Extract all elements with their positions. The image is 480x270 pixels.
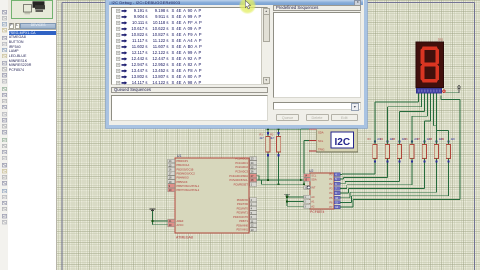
wire display segment a to R3 (375, 93, 419, 142)
U1 right pin 3 PD1/TXD (237, 202, 256, 206)
U2 left pin 13 INT (304, 186, 316, 190)
U1 right pin 24 PC1/ADC1 (235, 161, 256, 165)
svg-text:A2: A2 (311, 204, 315, 208)
U1 right pin 6 PD4/XCK/T0 (233, 215, 256, 219)
U2 right pin 11 P6 (329, 200, 340, 204)
U2 right pin 4 P0 (329, 173, 340, 177)
wire P5 to resistor R8 (340, 162, 437, 198)
resistor R3 220R (368, 138, 382, 162)
svg-text:PB5/SCK: PB5/SCK (177, 180, 188, 184)
svg-text:PD1/TXD: PD1/TXD (237, 202, 248, 206)
U2 left pin 14 SCL (304, 173, 317, 177)
U2 right pin 5 P1 (329, 177, 340, 181)
svg-text:PC1/ADC1: PC1/ADC1 (235, 161, 248, 165)
wire common anode to power (446, 92, 460, 94)
U2 right pin 10 P5 (329, 196, 340, 200)
svg-text:R1: R1 (260, 133, 264, 137)
I2C debugger U3 (309, 129, 358, 153)
wire SCL net (PC5 to PCF8574/pull-up/debugger) (257, 141, 310, 186)
svg-text:I2C: I2C (335, 137, 351, 148)
U1 right pin 4 PD2/INT0 (237, 206, 257, 210)
svg-text:PC0/ADC0: PC0/ADC0 (235, 157, 248, 161)
U2 left pin 1 A0 (304, 195, 316, 199)
svg-text:P3: P3 (329, 187, 333, 191)
resistor R2 4k7 pull-up (270, 129, 281, 184)
svg-text:SDA: SDA (311, 178, 317, 182)
U2 right pin 6 P2 (329, 182, 340, 186)
wire P2 to resistor R5 (340, 162, 400, 184)
svg-text:SDA: SDA (318, 130, 324, 134)
wire display segment c to R5 (400, 93, 425, 142)
wire display segment b to R4 (388, 93, 422, 142)
svg-text:P2: P2 (329, 182, 333, 186)
svg-text:4k7: 4k7 (270, 136, 275, 140)
U1 left pin 17 PB3/MOSI/OC2 (168, 171, 196, 175)
wire P1 to resistor R4 (340, 162, 388, 180)
resistor R6 220R (405, 138, 419, 162)
U1 left pin 10 PB7/TOSC2/XTAL2 (168, 188, 200, 192)
U2 left pin 3 A2 (304, 204, 316, 208)
svg-text:ATMEGA8: ATMEGA8 (176, 236, 193, 240)
svg-text:4k7: 4k7 (260, 136, 265, 140)
U2 left pin 2 A1 (304, 200, 316, 204)
svg-text:PC6/RESET: PC6/RESET (234, 182, 249, 186)
wire P0 to resistor R3 (340, 162, 375, 175)
wire P7 to display pin 8 (direct) (340, 96, 460, 207)
svg-text:PD2/INT0: PD2/INT0 (237, 206, 249, 210)
svg-text:PB6/TOSC1/XTAL1: PB6/TOSC1/XTAL1 (177, 184, 200, 188)
U1 right pin 12 PD6/AIN0 (236, 223, 256, 227)
U2 right pin 12 P7 (329, 205, 340, 209)
svg-text:R4: R4 (380, 138, 384, 141)
U1 left pin 20 AVCC (168, 223, 184, 227)
svg-text:P1: P1 (329, 177, 333, 181)
svg-text:DS1: DS1 (438, 38, 444, 42)
power symbol VCC (457, 85, 461, 93)
svg-text:PC4/ADC4/SDA: PC4/ADC4/SDA (229, 174, 248, 178)
svg-text:R9: R9 (441, 138, 445, 141)
svg-text:INT: INT (311, 186, 316, 190)
ground (PCF8574 A0-A2) (284, 194, 290, 197)
svg-text:PD5/T1: PD5/T1 (239, 219, 248, 223)
resistor R9 220R (441, 138, 455, 162)
svg-text:AVCC: AVCC (177, 223, 184, 227)
U1 right pin 23 PC0/ADC0 (235, 157, 256, 161)
svg-text:220: 220 (451, 138, 456, 141)
svg-text:R8: R8 (429, 138, 433, 141)
svg-text:SCL: SCL (311, 173, 317, 177)
resistor R4 220R (380, 138, 394, 162)
U1 right pin 28 PC5/ADC5/SCL (230, 178, 257, 182)
svg-text:SCL: SCL (318, 139, 324, 143)
wire P3 to resistor R6 (340, 162, 412, 189)
wire SDA net (PC4 to PCF8574/pull-up/debugger) (257, 129, 310, 181)
svg-text:PB2/SS/OC1B: PB2/SS/OC1B (177, 167, 194, 171)
svg-text:PC5/ADC5/SCL: PC5/ADC5/SCL (230, 178, 249, 182)
U2 right pin 7 P3 (329, 187, 340, 191)
U1 left pin 9 PB6/TOSC1/XTAL1 (168, 184, 200, 188)
wire gnd to AREF/AVCC (152, 211, 168, 225)
svg-text:TRIG: TRIG (318, 148, 324, 152)
U1 left pin 16 PB2/SS/OC1B (168, 167, 194, 171)
U1 left pin 19 PB5/SCK (168, 180, 188, 184)
svg-text:R7: R7 (417, 138, 421, 141)
7-segment display DS1 (416, 38, 444, 88)
U2 INT pin bubble (307, 186, 310, 189)
microcontroller U1 ATMEGA8 (175, 154, 249, 239)
svg-text:PB7/TOSC2/XTAL2: PB7/TOSC2/XTAL2 (177, 188, 200, 192)
ground (AREF/AVCC) (150, 209, 156, 212)
wire display segment e to R7 (425, 93, 431, 142)
svg-text:U1: U1 (177, 154, 181, 158)
U1 right pin 27 PC4/ADC4/SDA (229, 174, 256, 178)
U1 right pin 2 PD0/RXD (237, 198, 257, 202)
wire display segment f to R8 (434, 93, 437, 142)
wire display segment d to R6 (412, 93, 428, 142)
resistor R8 220R (429, 138, 443, 162)
svg-text:P7: P7 (329, 205, 333, 209)
wire display segment g to R9 (437, 93, 449, 142)
resistor R7 220R (417, 138, 431, 162)
U1 left pin 21 AREF (168, 219, 184, 223)
svg-text:PCF8574: PCF8574 (310, 210, 324, 214)
svg-text:PB4/MISO: PB4/MISO (177, 176, 189, 180)
svg-text:A0: A0 (311, 195, 315, 199)
display pin strip (417, 88, 442, 93)
U1 left pin 18 PB4/MISO (168, 176, 189, 180)
wire VCC rail for pull-ups (266, 128, 303, 130)
svg-text:PB0/ICP1: PB0/ICP1 (177, 159, 189, 163)
U1 right pin 13 PD7/AIN1 (236, 228, 256, 232)
wire A0/A1/A2 to ground (286, 194, 303, 206)
U1 right pin 25 PC2/ADC2 (235, 165, 256, 169)
svg-text:R2: R2 (270, 133, 274, 137)
wire P6 to resistor R9 (340, 162, 449, 203)
U1 right pin 26 PC3/ADC3 (235, 170, 256, 174)
U1 right pin 5 PD3/INT1 (237, 211, 257, 215)
resistor R5 220R (392, 138, 406, 162)
svg-text:R3: R3 (368, 138, 372, 141)
U1 right pin 1 PC6/RESET (234, 182, 257, 186)
svg-text:PB1/OC1A: PB1/OC1A (177, 163, 190, 167)
IO expander U2 PCF8574 (309, 169, 334, 214)
svg-text:PD4/XCK/T0: PD4/XCK/T0 (233, 215, 248, 219)
svg-text:U2: U2 (309, 169, 313, 173)
svg-text:PB3/MOSI/OC2: PB3/MOSI/OC2 (177, 171, 196, 175)
U1 left pin 14 PB0/ICP1 (168, 159, 189, 163)
display common anode pin (442, 90, 445, 93)
svg-text:P5: P5 (329, 196, 333, 200)
wire P4 to resistor R7 (340, 162, 425, 194)
U1 left pin 15 PB1/OC1A (168, 163, 190, 167)
svg-text:P6: P6 (329, 200, 333, 204)
resistor R1 4k7 pull-up (260, 129, 271, 180)
svg-text:R5: R5 (392, 138, 396, 141)
svg-text:PC2/ADC2: PC2/ADC2 (235, 165, 248, 169)
U1 right pin 11 PD5/T1 (239, 219, 256, 223)
svg-text:PD7/AIN1: PD7/AIN1 (236, 228, 248, 232)
svg-text:PD3/INT1: PD3/INT1 (237, 211, 249, 215)
svg-text:R6: R6 (405, 138, 409, 141)
svg-text:P4: P4 (329, 191, 333, 195)
svg-text:P0: P0 (329, 173, 333, 177)
U2 right pin 9 P4 (329, 191, 340, 195)
svg-text:A1: A1 (311, 200, 315, 204)
svg-text:PD0/RXD: PD0/RXD (237, 198, 248, 202)
svg-text:PC3/ADC3: PC3/ADC3 (235, 170, 248, 174)
U2 left pin 15 SDA (304, 178, 317, 182)
svg-text:AREF: AREF (177, 219, 184, 223)
display segments (digit 8) (422, 48, 437, 81)
svg-text:PD6/AIN0: PD6/AIN0 (236, 223, 248, 227)
